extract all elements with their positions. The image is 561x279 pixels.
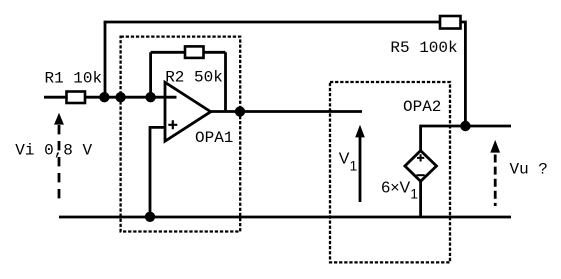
- wire: R5 to output node riser: [461, 22, 466, 126]
- svg-text:R1 10k: R1 10k: [45, 69, 103, 87]
- dashed box OPA2: [330, 82, 450, 262]
- node: input node A: [99, 92, 109, 102]
- dependent source plus mark: [417, 154, 424, 161]
- resistor R1: [67, 92, 86, 104]
- svg-text:6×V1: 6×V1: [381, 180, 418, 202]
- wire: output node to load: [465, 125, 511, 128]
- op-amp OPA1 triangle: [165, 82, 211, 141]
- node: inverting input node C: [145, 92, 155, 102]
- node: OPA1 output node D: [235, 106, 245, 116]
- node: output node F: [460, 121, 470, 131]
- arrow Vi (dashed, up): [58, 125, 61, 204]
- wire: bottom ground rail: [59, 216, 511, 219]
- svg-text:Vu ?: Vu ?: [510, 161, 548, 179]
- svg-text:V1: V1: [339, 151, 358, 174]
- wire: feedback riser from input node up to top rail: [104, 22, 107, 97]
- node: ground junction E: [145, 212, 155, 222]
- arrow V1 (solid, up): [359, 136, 362, 202]
- dashed box OPA1: [121, 37, 241, 232]
- wire: noninverting input to ground rail: [150, 127, 165, 217]
- op-amp plus sign: [168, 120, 177, 129]
- svg-text:R2 50k: R2 50k: [165, 69, 223, 87]
- resistor R2: [185, 46, 204, 58]
- wire: R2 down to OPA1 output: [224, 52, 227, 111]
- wire: dependent source top to output node: [421, 126, 466, 151]
- wire: R2 feedback riser from input node: [149, 52, 152, 97]
- wire: dependent source bottom to ground rail: [419, 181, 422, 217]
- wire: OPA1 output to V1 sensing point: [211, 110, 362, 113]
- resistor R5: [440, 16, 461, 29]
- node: box boundary node B: [115, 92, 125, 102]
- arrow Vu (dashed, up): [494, 155, 497, 207]
- dependent source 6xV1 diamond: [405, 151, 437, 182]
- svg-text:OPA2: OPA2: [403, 98, 441, 116]
- wire: R2 top horizontal: [151, 51, 226, 54]
- svg-text:R5 100k: R5 100k: [390, 39, 457, 57]
- wire: input line from source to OPA1 inverting input: [44, 96, 177, 99]
- dependent source minus mark: [417, 174, 425, 176]
- svg-text:Vi 0,8 V: Vi 0,8 V: [15, 142, 92, 160]
- wire: top feedback rail to R5: [104, 21, 440, 24]
- svg-text:OPA1: OPA1: [195, 129, 233, 147]
